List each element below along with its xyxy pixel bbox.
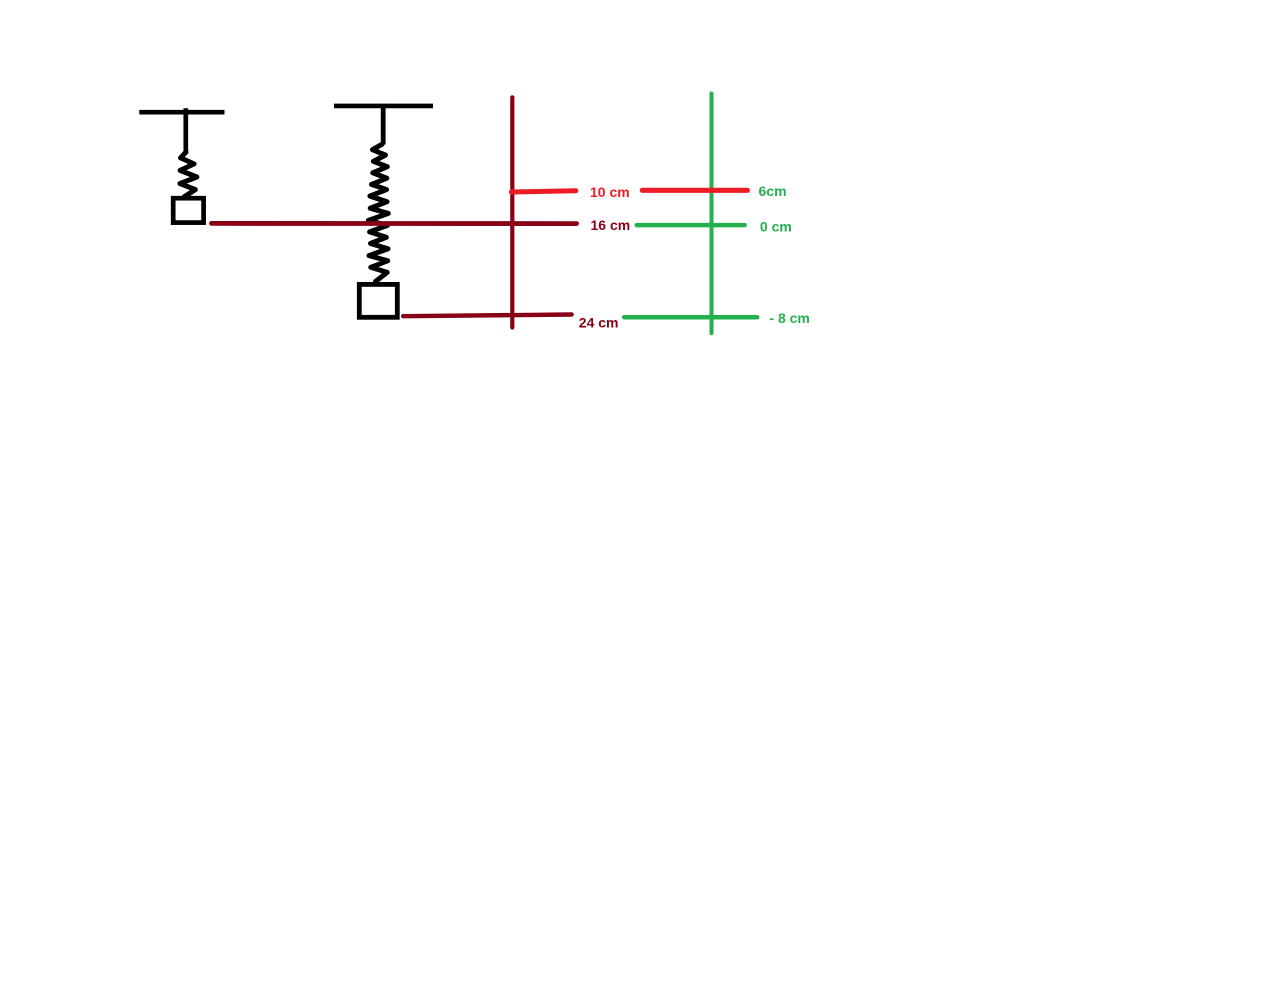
ceiling support (right spring) bbox=[334, 104, 433, 109]
dark red level line 24 cm bbox=[403, 315, 571, 317]
green tick 0 cm bbox=[637, 223, 745, 228]
spring S1 bbox=[180, 152, 197, 197]
mass block M2 bbox=[359, 284, 397, 317]
hanger rod (right spring) bbox=[381, 104, 386, 145]
svg-text:10 cm: 10 cm bbox=[590, 184, 630, 200]
green position axis (vertical) bbox=[710, 94, 714, 334]
green tick -8 cm bbox=[624, 315, 757, 320]
spring S2 bbox=[368, 144, 388, 281]
ceiling support (left spring) bbox=[139, 110, 224, 115]
dark red level line 16 cm bbox=[212, 221, 577, 226]
dark red length axis (vertical) bbox=[510, 97, 514, 327]
red tick 6 cm bbox=[642, 188, 747, 193]
mass block M1 bbox=[173, 198, 203, 222]
hanger rod (left spring) bbox=[183, 108, 188, 154]
svg-text:24 cm: 24 cm bbox=[579, 314, 619, 330]
svg-text:0 cm: 0 cm bbox=[760, 219, 792, 235]
red tick 10 cm bbox=[511, 191, 575, 192]
svg-text:- 8 cm: - 8 cm bbox=[769, 310, 809, 326]
svg-text:16 cm: 16 cm bbox=[591, 217, 631, 233]
svg-text:6cm: 6cm bbox=[759, 183, 787, 199]
